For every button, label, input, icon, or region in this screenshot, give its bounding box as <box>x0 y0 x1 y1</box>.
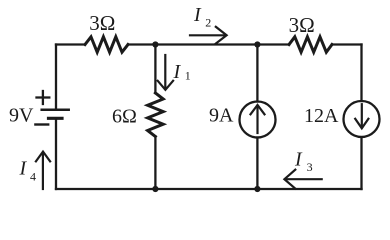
arrow I1 down <box>158 55 173 90</box>
node D bottom junction of 9A source <box>254 186 260 192</box>
svg-text:3Ω: 3Ω <box>289 13 315 37</box>
svg-text:I: I <box>294 149 303 171</box>
svg-text:9A: 9A <box>209 105 234 127</box>
wire left rail upper <box>55 45 57 109</box>
resistor R2 3ohm top-right zigzag <box>289 37 332 52</box>
wire top-middle segment <box>128 43 289 45</box>
node A top junction of R3 <box>152 41 158 47</box>
arrow I2 right <box>190 27 227 44</box>
current source I9 arrow up <box>251 105 265 133</box>
wire left rail lower <box>55 120 57 189</box>
current source I12 arrow down <box>355 104 368 128</box>
svg-text:3Ω: 3Ω <box>89 11 115 35</box>
arrow I3 left <box>284 170 321 189</box>
node B top junction of 9A source <box>254 41 260 47</box>
battery V1 short plate (-) <box>49 117 63 120</box>
current source I9 circle <box>240 102 276 138</box>
svg-text:12A: 12A <box>304 105 339 127</box>
svg-text:3: 3 <box>307 160 313 174</box>
resistor R3 6ohm vertical zigzag <box>148 93 164 137</box>
resistor R1 3ohm top-left zigzag <box>85 37 128 52</box>
svg-text:I: I <box>173 61 182 83</box>
wire right rail lower <box>360 137 362 189</box>
node C bottom junction of R3 <box>152 186 158 192</box>
current source I12 circle <box>344 101 380 137</box>
wire right rail upper <box>360 45 362 102</box>
arrow I4 up <box>36 152 50 189</box>
svg-text:1: 1 <box>185 69 191 83</box>
svg-text:2: 2 <box>205 15 211 29</box>
battery minus sign <box>35 123 48 125</box>
wire middle branch upper <box>154 45 156 94</box>
wire bottom <box>56 188 362 190</box>
wire 9A branch upper <box>256 45 258 102</box>
svg-text:9V: 9V <box>9 105 34 127</box>
wire top-left segment <box>56 43 85 45</box>
wire 9A branch lower <box>256 138 258 190</box>
wire top-right segment <box>332 43 362 45</box>
svg-text:4: 4 <box>30 170 36 184</box>
svg-text:I: I <box>193 4 202 26</box>
battery plus sign <box>37 91 50 104</box>
wire middle branch lower <box>154 137 156 190</box>
battery V1 long plate (+) <box>42 109 69 112</box>
svg-text:6Ω: 6Ω <box>112 105 137 127</box>
svg-text:I: I <box>19 158 28 180</box>
